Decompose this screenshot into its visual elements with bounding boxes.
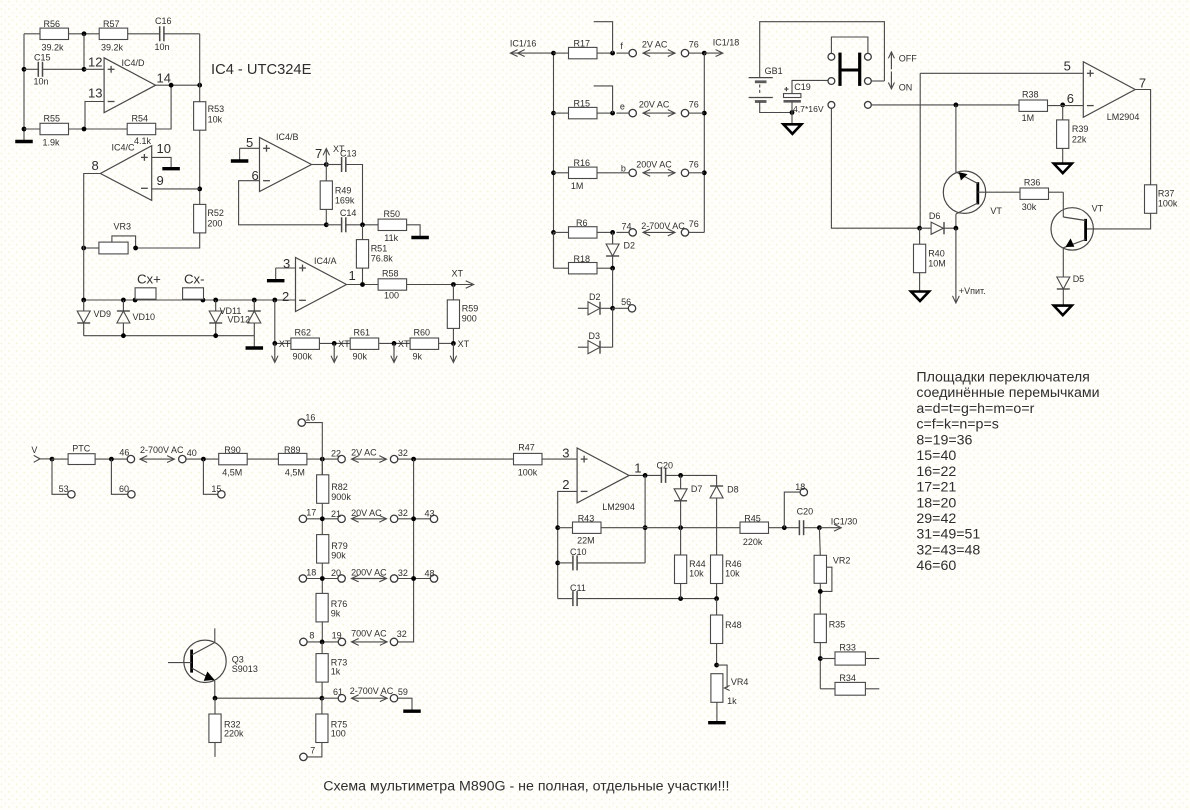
svg-text:12: 12 xyxy=(88,55,102,70)
junction xyxy=(411,457,416,462)
svg-text:53: 53 xyxy=(59,484,69,494)
svg-text:40: 40 xyxy=(187,448,197,458)
svg-text:c=f=k=n=p=s: c=f=k=n=p=s xyxy=(916,417,998,433)
wire xyxy=(362,225,364,240)
wire xyxy=(203,459,217,494)
svg-text:22M: 22M xyxy=(577,536,595,546)
wire xyxy=(597,52,613,54)
wire xyxy=(1086,213,1151,229)
switch contact xyxy=(865,78,872,85)
svg-text:D2: D2 xyxy=(624,241,636,251)
junction xyxy=(678,525,683,530)
ground xyxy=(231,159,249,162)
svg-text:76: 76 xyxy=(689,219,699,229)
wire xyxy=(978,191,1021,193)
junction xyxy=(714,663,719,668)
svg-text:IC1/16: IC1/16 xyxy=(510,39,537,49)
svg-text:C10: C10 xyxy=(570,547,587,557)
diode D2 xyxy=(578,292,601,315)
svg-text:4.1k: 4.1k xyxy=(134,136,152,146)
wire xyxy=(312,164,327,166)
jumper arrow xyxy=(643,112,675,114)
net XT arrow xyxy=(452,269,474,289)
wire xyxy=(612,308,614,347)
contact 32 xyxy=(390,629,407,646)
svg-text:8: 8 xyxy=(92,158,99,173)
svg-text:+Vпит.: +Vпит. xyxy=(959,286,986,296)
wire xyxy=(716,643,718,665)
jumper arrow xyxy=(352,578,387,580)
wire xyxy=(689,112,705,114)
svg-text:C15: C15 xyxy=(34,53,51,63)
wire xyxy=(398,518,430,520)
capacitor C19 xyxy=(784,82,824,114)
wire xyxy=(214,743,216,757)
svg-text:IC4 - UTC324E: IC4 - UTC324E xyxy=(211,62,312,78)
resistor R52 xyxy=(194,204,224,233)
svg-text:7: 7 xyxy=(1139,76,1146,91)
junction xyxy=(702,111,707,116)
ground xyxy=(267,279,285,282)
wire xyxy=(253,336,255,347)
resistor R55 xyxy=(40,114,69,148)
svg-text:7: 7 xyxy=(315,146,322,161)
junction xyxy=(133,298,138,303)
op-amp IC4/A xyxy=(282,256,356,312)
wire xyxy=(689,172,705,174)
jumper arrow xyxy=(643,52,675,54)
svg-text:R52: R52 xyxy=(207,208,224,218)
svg-text:XT: XT xyxy=(398,339,410,349)
resistor R32 xyxy=(209,714,244,743)
wire xyxy=(240,147,260,149)
capacitor C11 xyxy=(570,583,586,606)
resistor R49 xyxy=(320,181,355,210)
svg-text:10n: 10n xyxy=(155,42,170,52)
svg-text:17: 17 xyxy=(306,508,316,518)
op-amp IC4/D xyxy=(88,55,171,113)
wire xyxy=(325,165,327,182)
switch S1 slider xyxy=(840,53,860,86)
wire xyxy=(186,458,218,460)
svg-text:61: 61 xyxy=(333,687,343,697)
wire xyxy=(24,33,40,35)
wire xyxy=(307,641,338,643)
wire xyxy=(275,342,291,344)
wire xyxy=(554,52,569,54)
resistor R61 xyxy=(350,328,379,362)
op-amp U2 LM2904 xyxy=(1064,59,1147,123)
svg-text:3: 3 xyxy=(562,446,569,461)
wire xyxy=(554,112,569,114)
wire xyxy=(558,527,573,529)
svg-text:39.2k: 39.2k xyxy=(42,43,65,53)
svg-text:9k: 9k xyxy=(331,609,341,619)
wire xyxy=(760,102,792,113)
svg-text:R36: R36 xyxy=(1024,178,1041,188)
svg-text:100k: 100k xyxy=(1158,199,1178,209)
svg-text:R33: R33 xyxy=(839,642,856,652)
svg-text:9: 9 xyxy=(157,173,164,188)
ground xyxy=(15,140,33,143)
svg-text:R58: R58 xyxy=(382,269,399,279)
contact f xyxy=(620,41,636,57)
junction xyxy=(22,127,27,132)
wire xyxy=(398,698,412,709)
svg-text:IC1/30: IC1/30 xyxy=(831,517,858,527)
wire xyxy=(831,108,919,228)
svg-text:V: V xyxy=(31,445,37,455)
ground xyxy=(162,167,180,170)
junction xyxy=(252,298,257,303)
wire xyxy=(865,658,879,660)
contact 43 xyxy=(425,508,438,522)
wire xyxy=(398,458,514,460)
svg-text:1: 1 xyxy=(349,268,356,283)
op-amp IC4/C xyxy=(92,141,171,200)
resistor R40 xyxy=(914,244,946,273)
wire xyxy=(84,174,101,301)
svg-text:15: 15 xyxy=(211,484,221,494)
svg-text:1M: 1M xyxy=(1022,113,1035,123)
wire xyxy=(307,578,338,580)
svg-text:29=42: 29=42 xyxy=(916,511,956,527)
svg-text:D5: D5 xyxy=(1073,274,1085,284)
svg-text:1k: 1k xyxy=(331,667,341,677)
net IC1/30 arrow xyxy=(819,517,857,532)
resistor R59 xyxy=(447,300,478,329)
wire xyxy=(558,562,573,564)
svg-text:2-700V AC: 2-700V AC xyxy=(140,445,184,455)
wire xyxy=(594,22,613,53)
resistor R48 xyxy=(711,615,742,644)
wire xyxy=(275,268,277,279)
wire xyxy=(680,475,682,488)
wire xyxy=(199,34,201,102)
junction xyxy=(555,561,560,566)
wire xyxy=(819,642,821,689)
junction xyxy=(332,341,337,346)
contact 56 xyxy=(621,297,636,312)
wire xyxy=(820,658,835,660)
wire xyxy=(577,598,717,600)
svg-text:1k: 1k xyxy=(727,696,737,706)
junction xyxy=(610,266,615,271)
resistor R62 xyxy=(291,328,320,362)
wire xyxy=(554,231,569,233)
svg-text:200: 200 xyxy=(207,219,222,229)
wire xyxy=(680,501,682,528)
svg-text:900: 900 xyxy=(462,314,477,324)
svg-text:D2: D2 xyxy=(589,292,601,302)
svg-text:2-700V AC: 2-700V AC xyxy=(350,686,394,696)
svg-text:R39: R39 xyxy=(1072,124,1089,134)
junction xyxy=(702,51,707,56)
junction xyxy=(197,187,202,192)
potentiometer VR4 xyxy=(711,665,749,706)
transistor Q3 xyxy=(168,628,258,698)
jumper arrow xyxy=(352,458,387,460)
wire xyxy=(239,181,327,225)
svg-text:10M: 10M xyxy=(928,259,946,269)
svg-text:соединённые перемычками: соединённые перемычками xyxy=(916,385,1099,401)
wire xyxy=(321,459,323,642)
svg-text:R17: R17 xyxy=(574,39,591,49)
contact 32 xyxy=(390,568,408,582)
svg-text:D8: D8 xyxy=(727,485,739,495)
svg-text:R16: R16 xyxy=(574,158,591,168)
wire xyxy=(871,80,884,82)
junction xyxy=(551,170,556,175)
wire xyxy=(831,37,868,53)
net IC1/18 arrow xyxy=(704,38,739,57)
wire xyxy=(645,527,740,529)
wire xyxy=(1062,289,1064,305)
wire xyxy=(558,598,573,600)
wire xyxy=(274,300,276,343)
switch contact xyxy=(828,102,835,109)
wire xyxy=(791,113,793,125)
diode D7 xyxy=(674,484,702,501)
wire xyxy=(156,84,200,86)
capacitor C14 xyxy=(340,208,357,232)
svg-text:100: 100 xyxy=(331,729,346,739)
node Cx wire xyxy=(84,299,296,301)
svg-text:30k: 30k xyxy=(1022,202,1037,212)
contact 32 xyxy=(390,448,408,463)
resistor R44 xyxy=(675,555,706,584)
ground xyxy=(708,721,726,724)
junction xyxy=(320,516,325,521)
svg-text:Схема мультиметра М890G - не п: Схема мультиметра М890G - не полная, отд… xyxy=(323,779,729,795)
resistor R51 xyxy=(356,240,393,269)
resistor R38 xyxy=(1019,90,1048,124)
svg-text:22: 22 xyxy=(331,449,341,459)
svg-text:17=21: 17=21 xyxy=(916,480,956,496)
wire xyxy=(325,210,327,225)
junction xyxy=(702,170,707,175)
wire xyxy=(321,642,323,654)
wire xyxy=(111,459,127,494)
wire xyxy=(919,73,921,228)
svg-text:XT: XT xyxy=(338,339,350,349)
wire xyxy=(24,68,38,70)
svg-text:200V AC: 200V AC xyxy=(636,159,672,169)
switch contact xyxy=(828,78,835,85)
contact pad Cx+ xyxy=(135,272,161,300)
contact 17 xyxy=(299,508,316,523)
input V xyxy=(31,445,40,462)
svg-text:48: 48 xyxy=(425,568,435,578)
resistor R56 xyxy=(40,19,69,52)
op-amp U3 LM2904 xyxy=(562,446,641,513)
jumper arrow xyxy=(352,518,387,520)
wire xyxy=(612,268,614,308)
svg-text:10k: 10k xyxy=(725,569,740,579)
junction xyxy=(324,222,329,227)
junction xyxy=(81,298,86,303)
svg-text:VT: VT xyxy=(1092,204,1104,214)
svg-text:Cx-: Cx- xyxy=(184,272,205,287)
svg-text:31=49=51: 31=49=51 xyxy=(916,527,980,543)
svg-text:1.9k: 1.9k xyxy=(43,138,61,148)
svg-text:900k: 900k xyxy=(331,492,351,502)
resistor R60 xyxy=(410,328,439,362)
junction xyxy=(22,67,27,72)
wire xyxy=(152,188,200,190)
diode VD10 xyxy=(117,300,155,336)
svg-text:R60: R60 xyxy=(414,328,431,338)
svg-text:220k: 220k xyxy=(224,729,244,739)
svg-text:R47: R47 xyxy=(518,442,535,452)
wire xyxy=(215,697,322,699)
net XT arrow xyxy=(323,144,345,165)
capacitor C10 xyxy=(570,547,587,571)
svg-text:XT: XT xyxy=(458,339,470,349)
junction xyxy=(109,457,114,462)
contact 40 xyxy=(179,448,197,463)
wire xyxy=(818,528,821,556)
capacitor C13 xyxy=(340,149,357,173)
svg-text:8: 8 xyxy=(309,631,314,641)
resistor R39 xyxy=(1057,120,1089,148)
net IC1/16 arrow xyxy=(510,39,554,57)
diode D6 xyxy=(920,211,956,234)
svg-text:7: 7 xyxy=(310,746,315,756)
svg-text:IC4/D: IC4/D xyxy=(122,58,146,68)
diode VD11 xyxy=(209,300,241,336)
svg-text:20: 20 xyxy=(331,568,341,578)
wire xyxy=(616,52,629,54)
junction xyxy=(555,525,560,530)
junction xyxy=(643,473,648,478)
resistor R35 xyxy=(814,614,845,643)
svg-text:IC1/18: IC1/18 xyxy=(713,38,740,48)
wire xyxy=(600,307,612,309)
svg-text:76: 76 xyxy=(689,160,699,170)
wire xyxy=(666,475,717,486)
contact 53 xyxy=(59,484,76,498)
svg-text:32: 32 xyxy=(398,508,408,518)
junction xyxy=(818,589,823,594)
svg-text:R40: R40 xyxy=(928,249,945,259)
junction xyxy=(818,656,823,661)
potentiometer VR2 xyxy=(814,555,850,591)
svg-text:4,5M: 4,5M xyxy=(222,468,242,478)
svg-text:VT: VT xyxy=(990,206,1002,216)
svg-text:20V AC: 20V AC xyxy=(639,99,670,109)
svg-text:1M: 1M xyxy=(571,181,584,191)
svg-text:11k: 11k xyxy=(384,233,398,243)
diode D8 xyxy=(710,485,739,499)
diode VD12 xyxy=(228,300,261,336)
svg-text:R6: R6 xyxy=(576,218,588,228)
wire xyxy=(703,53,705,232)
junction xyxy=(121,333,126,338)
svg-text:18: 18 xyxy=(795,482,805,492)
junction xyxy=(50,457,55,462)
wire xyxy=(84,247,99,249)
resistor R33 xyxy=(835,642,865,665)
contact e xyxy=(620,102,637,117)
wire xyxy=(820,688,835,690)
junction xyxy=(201,457,206,462)
wire xyxy=(716,498,718,599)
svg-text:R37: R37 xyxy=(1158,189,1175,199)
junction xyxy=(817,525,822,530)
svg-text:VR3: VR3 xyxy=(114,222,132,232)
svg-text:R15: R15 xyxy=(574,99,591,109)
junction xyxy=(213,298,218,303)
wire xyxy=(362,268,364,285)
svg-text:ON: ON xyxy=(899,83,913,93)
contact 21 xyxy=(331,509,345,522)
jumper arrow xyxy=(352,697,388,699)
wire xyxy=(612,256,614,268)
svg-text:VD12: VD12 xyxy=(228,315,251,325)
svg-text:700V AC: 700V AC xyxy=(351,629,387,639)
wire xyxy=(346,224,378,226)
junction xyxy=(678,596,683,601)
svg-text:10: 10 xyxy=(157,141,171,156)
svg-text:18=20: 18=20 xyxy=(916,495,956,511)
wire xyxy=(769,527,800,529)
wire xyxy=(716,599,718,615)
wire xyxy=(791,101,793,112)
wire xyxy=(239,148,241,159)
contact 76 xyxy=(681,40,699,57)
jumper arrow xyxy=(643,231,675,233)
wire xyxy=(452,328,454,343)
wire xyxy=(784,492,800,528)
svg-text:169k: 169k xyxy=(335,196,355,206)
svg-text:Площадки переключателя: Площадки переключателя xyxy=(916,370,1089,386)
junction xyxy=(610,51,615,56)
contact 19 xyxy=(332,631,346,646)
wire xyxy=(164,33,200,35)
svg-text:46: 46 xyxy=(119,447,129,457)
resistor R50 xyxy=(378,209,407,243)
note text block xyxy=(916,370,1099,575)
junction xyxy=(324,162,329,167)
wire xyxy=(1135,90,1150,186)
junction xyxy=(917,226,922,231)
wire xyxy=(597,172,629,174)
svg-text:R59: R59 xyxy=(462,304,479,314)
contact 76 xyxy=(681,219,699,236)
resistor R73 xyxy=(316,654,347,683)
svg-text:59: 59 xyxy=(398,687,408,697)
svg-text:Cx+: Cx+ xyxy=(137,272,161,287)
contact 59 xyxy=(390,687,408,702)
wire xyxy=(24,128,40,130)
diode D5 xyxy=(1057,274,1084,289)
label ON arrow xyxy=(888,72,912,93)
wire xyxy=(346,165,363,225)
svg-text:32=43=48: 32=43=48 xyxy=(916,542,980,558)
wire xyxy=(594,86,613,113)
svg-text:18: 18 xyxy=(306,567,316,577)
wire xyxy=(1062,105,1064,120)
svg-text:VR2: VR2 xyxy=(833,555,851,565)
wire xyxy=(199,130,201,205)
svg-text:15=40: 15=40 xyxy=(916,448,956,464)
wire xyxy=(613,307,629,309)
jumper arrow xyxy=(140,458,174,460)
svg-text:76: 76 xyxy=(689,100,699,110)
wire xyxy=(597,267,613,269)
wire xyxy=(792,80,828,93)
